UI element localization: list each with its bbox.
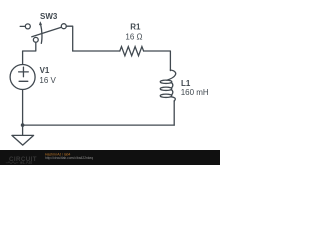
wire: L1 bottom lead <box>173 101 175 125</box>
svg-text:http://circuitlab.com/c/ba422n: http://circuitlab.com/c/ba422nkeq <box>45 156 93 160</box>
junction node <box>21 123 25 127</box>
SW3 arrowhead <box>39 21 42 25</box>
L1 connector 1 <box>171 83 173 88</box>
svg-text:16 V: 16 V <box>39 76 56 85</box>
L1 loop 1 <box>160 80 172 83</box>
wire: SW3 left open-throw stub <box>20 25 25 27</box>
SW3 actuator arrow shaft <box>41 25 42 44</box>
wire: R1 to top-right corner <box>144 51 171 71</box>
svg-text:R1: R1 <box>130 22 141 31</box>
SW3 left throw terminal circle <box>25 24 30 29</box>
SW3 right throw terminal circle <box>61 24 66 29</box>
V1 plus sign <box>19 67 29 77</box>
wire: bottom return <box>23 124 175 126</box>
wire: V1 bottom to junction <box>22 90 24 126</box>
switch SW3 <box>20 24 66 44</box>
svg-text:L1: L1 <box>181 79 191 88</box>
ground stub <box>22 125 24 135</box>
SW3 blade <box>32 27 62 37</box>
resistor R1 zigzag <box>120 47 144 56</box>
SW3 common pivot circle <box>33 37 38 42</box>
wire: SW3 common down-jog to V1 top <box>23 42 36 64</box>
wire: SW3 right terminal to top-right corner <box>66 26 72 51</box>
L1 loop 2 <box>160 87 172 90</box>
L1 exit curve <box>171 97 175 101</box>
svg-text:■LAB: ■LAB <box>20 160 33 165</box>
svg-text:160 mH: 160 mH <box>181 88 209 97</box>
L1 loop 3 <box>160 94 172 97</box>
L1 connector 2 <box>171 90 173 95</box>
wire: main horizontal to R1 <box>73 50 120 52</box>
ground triangle <box>12 135 34 145</box>
voltage source V1 circle <box>10 65 35 90</box>
V1 minus sign <box>19 80 28 82</box>
logo zigzag and LAB <box>6 162 18 164</box>
inductor L1 entry curve <box>167 70 176 80</box>
svg-text:16 Ω: 16 Ω <box>125 32 142 41</box>
svg-text:V1: V1 <box>40 66 50 75</box>
footer bar <box>0 150 220 165</box>
svg-text:SW3: SW3 <box>40 12 58 21</box>
